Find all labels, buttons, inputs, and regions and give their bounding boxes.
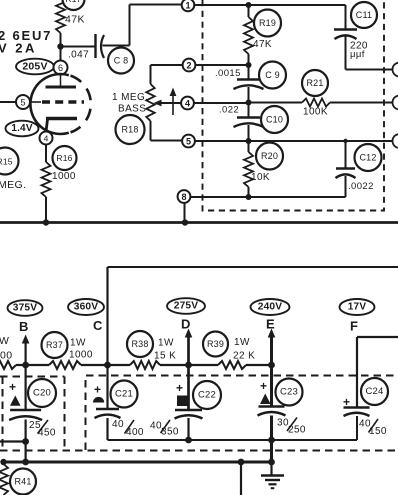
capacitor C10 .022 bbox=[248, 103, 250, 118]
svg-text:+: + bbox=[176, 381, 183, 395]
wire terminal row mid bbox=[249, 140, 394, 142]
junction rail D bbox=[185, 362, 192, 369]
svg-text:1000: 1000 bbox=[52, 171, 76, 182]
svg-text:1 MEG.: 1 MEG. bbox=[112, 92, 148, 103]
svg-text:.0015: .0015 bbox=[215, 68, 241, 79]
svg-text:C20: C20 bbox=[33, 388, 51, 399]
resistor R19 47K bbox=[244, 17, 253, 54]
svg-text:100K: 100K bbox=[303, 107, 328, 118]
junction R41 bbox=[0, 459, 6, 465]
wire C drop bbox=[106, 267, 108, 365]
junction C10 bottom bbox=[246, 138, 252, 144]
wire F corner bbox=[357, 336, 398, 338]
svg-text:MEG.: MEG. bbox=[0, 179, 26, 191]
resistor R39 label bbox=[203, 332, 228, 357]
svg-text:.047: .047 bbox=[68, 50, 89, 61]
junction mid bbox=[246, 100, 252, 106]
svg-text:C12: C12 bbox=[359, 153, 376, 163]
resistor R37 element bbox=[49, 361, 81, 369]
tube V2A triode bbox=[54, 61, 68, 75]
svg-text:22 K: 22 K bbox=[233, 351, 255, 362]
wire terminal 4 right bbox=[194, 102, 249, 104]
dashed box C21-C24 bbox=[86, 376, 398, 451]
capacitor C12 .0022 bbox=[343, 139, 347, 143]
svg-text:5: 5 bbox=[186, 136, 191, 146]
resistor R38 label bbox=[127, 331, 153, 357]
rail segment bbox=[81, 364, 130, 366]
svg-text:40: 40 bbox=[112, 419, 124, 430]
svg-text:C 9: C 9 bbox=[265, 70, 280, 80]
voltage 375V node B bbox=[8, 300, 43, 316]
resistor R16 1000 bbox=[45, 145, 47, 163]
svg-text:B: B bbox=[19, 319, 29, 334]
junction C9 top bbox=[246, 62, 252, 68]
ground symbol bbox=[270, 462, 272, 475]
wire C8 to terminal 1 bbox=[103, 45, 130, 47]
capacitor C20 25/450 bbox=[25, 365, 27, 410]
junction C23 wire bbox=[268, 437, 275, 444]
voltage 360V node C bbox=[68, 299, 104, 315]
svg-text:6: 6 bbox=[58, 63, 63, 73]
capacitor C8 .047 bbox=[94, 34, 96, 58]
svg-text:E: E bbox=[266, 317, 275, 332]
resistor R41 bbox=[0, 464, 8, 495]
svg-text:R16: R16 bbox=[56, 153, 72, 163]
svg-text:R41: R41 bbox=[14, 477, 31, 487]
terminal 5 bbox=[182, 135, 195, 148]
svg-text:C10: C10 bbox=[266, 115, 283, 125]
dashed bottom line bbox=[0, 450, 398, 452]
svg-text:15 K: 15 K bbox=[154, 351, 176, 362]
B+ rail with resistors bbox=[0, 361, 16, 369]
wire terminal 2 left bbox=[151, 64, 183, 66]
svg-text:R19: R19 bbox=[259, 18, 276, 28]
svg-text:4: 4 bbox=[185, 98, 190, 108]
junction wire down bbox=[238, 459, 245, 466]
junction bottom net bbox=[246, 194, 252, 200]
junction C22 bottom bbox=[185, 437, 192, 444]
capacitor C22 40/350 bbox=[187, 365, 190, 410]
right terminal b bbox=[393, 96, 398, 110]
junction rail B bbox=[22, 362, 29, 369]
svg-text:47K: 47K bbox=[253, 39, 272, 50]
junction rail E bbox=[268, 362, 275, 369]
svg-text:R17: R17 bbox=[65, 0, 81, 4]
svg-text:C 8: C 8 bbox=[114, 56, 129, 66]
resistor R37 label bbox=[42, 332, 68, 358]
svg-text:.022: .022 bbox=[219, 105, 239, 116]
resistor R38 element bbox=[130, 361, 160, 369]
rail segment 3 bbox=[246, 364, 272, 366]
terminal 2 bbox=[183, 59, 196, 72]
svg-text:F: F bbox=[350, 319, 358, 334]
svg-text:240V: 240V bbox=[258, 302, 283, 313]
svg-text:1.4V: 1.4V bbox=[11, 123, 33, 134]
svg-text:4: 4 bbox=[44, 134, 49, 144]
svg-text:360V: 360V bbox=[74, 302, 99, 313]
svg-text:D: D bbox=[181, 317, 191, 332]
svg-text:5: 5 bbox=[20, 98, 25, 108]
wire C20 left bbox=[0, 440, 26, 442]
svg-text:1W: 1W bbox=[234, 337, 250, 348]
svg-text:R37: R37 bbox=[46, 340, 63, 350]
right terminal a bbox=[393, 63, 398, 77]
svg-text:1W: 1W bbox=[70, 338, 86, 349]
svg-text:C11: C11 bbox=[356, 10, 372, 20]
ground bus bottom bbox=[2, 461, 272, 464]
resistor R20 10K bbox=[244, 152, 253, 187]
svg-text:C21: C21 bbox=[115, 389, 133, 400]
terminal 4 bbox=[181, 97, 194, 110]
wire terminal 2 right bbox=[195, 64, 248, 66]
svg-text:μμf: μμf bbox=[350, 49, 365, 60]
svg-text:1W: 1W bbox=[158, 338, 174, 349]
right terminal c bbox=[393, 134, 398, 148]
svg-text:R38: R38 bbox=[131, 339, 148, 349]
svg-text:W: W bbox=[0, 335, 9, 347]
svg-text:+: + bbox=[94, 383, 101, 397]
svg-text:+: + bbox=[260, 379, 267, 393]
svg-text:.0022: .0022 bbox=[348, 181, 374, 192]
dashed module box bbox=[203, 0, 385, 211]
capacitor C23 30/250 bbox=[270, 365, 273, 406]
svg-text:R15: R15 bbox=[0, 157, 13, 167]
voltage 17V node F bbox=[340, 299, 375, 315]
terminal 8 bbox=[178, 190, 191, 203]
svg-text:8: 8 bbox=[181, 192, 186, 202]
svg-text:BASS: BASS bbox=[118, 104, 146, 115]
junction node plate bbox=[57, 43, 63, 49]
junction C20 ground bbox=[22, 459, 29, 466]
svg-text:1: 1 bbox=[185, 0, 190, 10]
wire cap bottoms bbox=[108, 439, 358, 441]
svg-text:V 2A: V 2A bbox=[0, 41, 37, 56]
wire down feed bbox=[240, 462, 242, 495]
svg-text:C: C bbox=[93, 318, 103, 333]
voltage 240V node E bbox=[251, 299, 290, 315]
resistor R21 100K bbox=[249, 102, 303, 104]
voltage 1.4V bbox=[6, 121, 39, 137]
svg-text:+: + bbox=[343, 395, 350, 409]
svg-text:375V: 375V bbox=[13, 303, 38, 314]
resistor R39 element bbox=[218, 361, 246, 369]
wire terminal 5 left bbox=[151, 140, 183, 142]
pin 4 bbox=[40, 132, 53, 145]
svg-text:2: 2 bbox=[186, 60, 191, 70]
junction terminal8 ground bbox=[182, 219, 188, 225]
svg-text:R20: R20 bbox=[261, 151, 278, 161]
wire plate bbox=[60, 33, 62, 61]
capacitor C11 220uuf bbox=[345, 5, 347, 29]
svg-text:+: + bbox=[9, 380, 16, 394]
svg-text:R18: R18 bbox=[121, 125, 138, 135]
wire grid input bbox=[0, 101, 16, 103]
resistor R17 47K bbox=[56, 0, 65, 33]
junction R16 ground bbox=[43, 219, 49, 225]
rail segment 2 bbox=[160, 364, 218, 366]
voltage 275V node D bbox=[167, 298, 205, 314]
svg-text:R39: R39 bbox=[207, 339, 224, 349]
wire terminal 8 down bbox=[184, 203, 186, 223]
svg-text:00: 00 bbox=[0, 350, 12, 362]
junction ground symbol bbox=[268, 459, 275, 466]
svg-text:R21: R21 bbox=[306, 78, 323, 88]
svg-text:C23: C23 bbox=[280, 387, 298, 398]
pin 5 bbox=[16, 95, 30, 109]
resistor R15 1MEG bbox=[0, 148, 19, 175]
capacitor C9 .0015 bbox=[248, 65, 250, 79]
junction C20 wire bbox=[22, 438, 29, 445]
wire bottom net bbox=[249, 196, 346, 198]
ground bus top bbox=[0, 221, 398, 224]
svg-text:205V: 205V bbox=[22, 61, 47, 73]
wire upper feed bbox=[108, 266, 398, 268]
wire terminal 1 to net bbox=[194, 4, 345, 6]
dashed box C20 bbox=[0, 377, 65, 449]
capacitor C21 40/400 bbox=[106, 365, 108, 409]
potentiometer R18 1MEG BASS bbox=[150, 65, 152, 84]
svg-text:17V: 17V bbox=[348, 302, 367, 313]
capacitor C24 40/150 bbox=[344, 406, 370, 408]
voltage 205V bbox=[16, 59, 54, 75]
svg-text:275V: 275V bbox=[174, 301, 199, 312]
junction rail C bbox=[104, 362, 111, 369]
svg-text:C22: C22 bbox=[198, 390, 216, 401]
svg-text:10K: 10K bbox=[251, 172, 270, 183]
junction R19 top bbox=[246, 2, 252, 8]
wire terminal 5 right bbox=[195, 140, 249, 142]
wire to C8 bbox=[62, 46, 95, 48]
svg-text:1000: 1000 bbox=[69, 350, 93, 361]
wire terminal 8 right bbox=[190, 196, 248, 198]
svg-text:47K: 47K bbox=[65, 14, 85, 26]
terminal 1 bbox=[182, 0, 195, 11]
svg-text:C24: C24 bbox=[365, 386, 383, 397]
